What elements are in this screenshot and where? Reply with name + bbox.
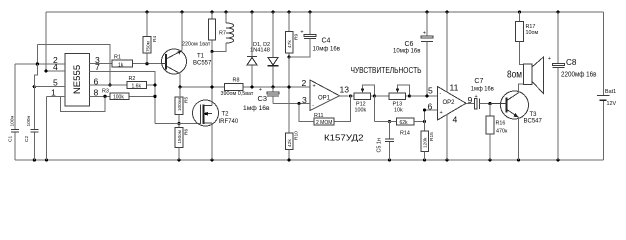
op-amp OP2 K157UD2 (428, 83, 473, 125)
wire NE555 pin4 line (46, 70, 65, 72)
node hat to pin6 junction (108, 83, 111, 86)
svg-text:BC557: BC557 (193, 61, 212, 67)
node OP2 plus line (423, 108, 426, 111)
svg-text:47k: 47k (287, 40, 293, 48)
main signal line T1 collector to OP1 + (180, 86, 310, 88)
capacitor C7 1мф 16в (471, 78, 495, 109)
svg-text:R11: R11 (314, 113, 324, 119)
svg-text:OP1: OP1 (318, 95, 331, 101)
node pin8 right (153, 95, 156, 98)
transistor T3 BC547 (490, 84, 543, 160)
capacitor C4 10мф 16в (289, 12, 341, 57)
svg-text:T1: T1 (197, 54, 205, 60)
node pin3 / R4 junction (145, 62, 148, 65)
node pin8 wrap (103, 95, 106, 98)
capacitor C1 (8, 64, 19, 160)
capacitor C3 1мф 16в (243, 87, 279, 112)
wire NE555 pin2 line (15, 63, 65, 65)
node R11 tap (297, 102, 300, 105)
node output feedback tap (349, 94, 352, 97)
svg-text:+: + (300, 30, 303, 36)
op-amp OP1 K157UD2 (302, 78, 350, 111)
svg-text:6: 6 (428, 101, 433, 111)
potentiometer P13 10k (375, 85, 410, 113)
wire right battery edge top (603, 12, 605, 96)
wire 220ом/coil node down to drain (211, 52, 213, 101)
svg-text:T2: T2 (222, 112, 230, 118)
wire NE555 pin3 line to T1 base (90, 63, 163, 65)
resistor R4 750м (143, 12, 158, 64)
svg-text:R7: R7 (219, 31, 226, 37)
capacitor C5 1н (377, 122, 394, 161)
svg-text:R4: R4 (152, 36, 158, 42)
svg-text:100k: 100k (355, 108, 367, 114)
svg-text:BC547: BC547 (524, 119, 543, 125)
node + input line junction (287, 85, 290, 88)
node C6 to minus line (425, 94, 428, 97)
node P12 wiper junction (373, 94, 376, 97)
svg-text:13: 13 (340, 85, 350, 95)
svg-text:10мф 16в: 10мф 16в (313, 45, 341, 52)
svg-text:+: + (440, 110, 443, 116)
node dots bottom rail (33, 85, 560, 162)
resistor R7 220ом 1ват (182, 12, 216, 52)
capacitor C2 (24, 64, 38, 160)
node collector line (178, 85, 181, 88)
wire bottom ground rail (15, 159, 604, 161)
potentiometer P12 100k (350, 85, 375, 113)
svg-text:5: 5 (53, 78, 58, 88)
svg-text:42k: 42k (287, 139, 293, 147)
svg-text:C5 1н: C5 1н (377, 138, 383, 152)
svg-text:1.6k: 1.6k (132, 84, 142, 90)
svg-text:4: 4 (453, 114, 458, 124)
svg-text:+: + (313, 83, 316, 89)
svg-text:R6: R6 (184, 129, 190, 135)
node pin6 right junction (153, 83, 156, 86)
node R9 C4 junction (287, 55, 290, 58)
wire hat over NE555 (pin2 to pin6 link) (37, 45, 110, 86)
svg-text:1мф 16в: 1мф 16в (243, 105, 270, 112)
svg-text:2: 2 (302, 78, 307, 88)
transistor T2 IRF740 (193, 100, 239, 160)
svg-text:C4: C4 (322, 38, 331, 45)
wire T1 collector to R5 (179, 87, 180, 97)
svg-text:10ом: 10ом (526, 30, 539, 36)
wire NE555 pin6 line (90, 84, 156, 86)
svg-text:C2: C2 (24, 136, 30, 142)
svg-text:+: + (423, 31, 426, 37)
svg-text:C3: C3 (258, 94, 267, 103)
svg-text:62k: 62k (400, 120, 409, 126)
resistor R5 100ом (175, 97, 189, 124)
resistor R9 47k (285, 12, 299, 57)
svg-text:12V: 12V (607, 101, 617, 107)
wire OP2 pin11 supply drop (446, 12, 448, 93)
svg-text:R1: R1 (114, 55, 121, 61)
wire gate line (155, 123, 201, 125)
wire NE555 pin1 line (47, 96, 66, 160)
svg-text:+: + (475, 94, 478, 100)
wire NE555 pin8 line (90, 95, 156, 97)
svg-text:Bat1: Bat1 (605, 89, 616, 95)
node D2 bottom (271, 85, 274, 88)
node R16 tap (488, 102, 491, 105)
resistor R14 62k (375, 118, 425, 136)
diode D1 1N4148 (247, 12, 257, 87)
wire OP2 output line (466, 102, 475, 104)
node R14 R15 junction (423, 120, 426, 123)
svg-text:1мф 16в: 1мф 16в (471, 85, 495, 92)
svg-text:8ом: 8ом (507, 70, 522, 81)
svg-text:+: + (548, 56, 551, 62)
battery Bat1 12V (597, 89, 616, 107)
node pin4 (44, 69, 47, 72)
transistor T1 BC557 (162, 12, 213, 87)
resistor R8 390ом 0,5ват (221, 78, 254, 97)
resistor R1 1k (112, 55, 133, 69)
svg-text:100ом: 100ом (177, 98, 182, 111)
speaker 8ом (507, 57, 544, 94)
svg-text:390ом 0,5ват: 390ом 0,5ват (221, 91, 254, 97)
svg-text:5: 5 (428, 86, 433, 96)
svg-text:NE555: NE555 (72, 65, 83, 94)
wire pin8 wrap under chip (61, 96, 106, 111)
svg-text:220ом 1ват: 220ом 1ват (182, 41, 211, 47)
svg-text:OP2: OP2 (443, 100, 456, 106)
svg-text:2 МОМ: 2 МОМ (316, 120, 332, 126)
node gate line R5 R6 (177, 122, 180, 125)
svg-text:R8: R8 (233, 78, 240, 84)
wire P13 to OP2 minus (410, 95, 438, 97)
capacitor C8 2200мф 16в (548, 12, 597, 160)
svg-text:2200мф 16в: 2200мф 16в (561, 71, 597, 78)
diode D2 1N4148 (268, 12, 279, 87)
wire R9 node down through + line to R10 (288, 57, 290, 133)
svg-text:R15: R15 (429, 132, 435, 141)
svg-text:К157УД2: К157УД2 (324, 133, 364, 143)
svg-text:11: 11 (450, 83, 459, 93)
svg-text:-: - (440, 91, 442, 97)
node drain line (210, 85, 213, 88)
svg-text:T3: T3 (530, 112, 538, 118)
svg-text:+: + (259, 87, 262, 93)
svg-text:150ом: 150ом (177, 130, 182, 143)
wire OP1 output line (340, 95, 349, 97)
inductor L search coil (212, 12, 234, 52)
svg-text:C7: C7 (474, 78, 483, 85)
wire junction up to OP2 plus (425, 110, 438, 122)
node D1 bottom (250, 85, 253, 88)
node dots top rail (145, 10, 559, 13)
svg-text:100н: 100н (26, 115, 32, 126)
svg-text:10мф 16в: 10мф 16в (393, 47, 421, 54)
svg-text:100н: 100н (10, 115, 16, 126)
svg-text:C1: C1 (8, 136, 14, 142)
wire NE555 pin5 line (34, 86, 65, 88)
svg-text:100k: 100k (113, 95, 124, 101)
resistor R17 10ом (516, 12, 539, 65)
resistor R10 42k (285, 131, 299, 160)
svg-text:750м: 750м (146, 41, 151, 52)
svg-text:R10: R10 (294, 131, 300, 140)
wire NE555 pin7 jog down (90, 72, 156, 124)
resistor R16 470к (486, 104, 508, 160)
svg-text:IRF740: IRF740 (219, 119, 239, 125)
resistor R15 120k (421, 122, 435, 161)
svg-text:1: 1 (51, 88, 56, 98)
wire top supply rail (46, 11, 604, 13)
svg-text:ЧУВСТВИТЕЛЬНОСТЬ: ЧУВСТВИТЕЛЬНОСТЬ (351, 66, 422, 75)
wire right battery edge bottom (603, 101, 605, 160)
resistor R2 1.6k (127, 76, 147, 90)
node R10 bottom (287, 158, 290, 161)
resistor R6 150ом (175, 124, 189, 161)
capacitor C6 10мф 16в (393, 12, 433, 96)
wire OP1 minus input line (273, 103, 310, 105)
svg-text:R5: R5 (184, 97, 190, 103)
svg-text:-: - (312, 102, 314, 108)
wire pot node down to R14 C5 (374, 96, 376, 122)
svg-text:R16: R16 (496, 121, 506, 127)
svg-text:470к: 470к (496, 128, 508, 134)
wire left vcc drop to pin4 (45, 12, 47, 71)
node C5 R14 (388, 120, 391, 123)
resistor R11 2 MOM feedback (299, 96, 351, 126)
svg-text:10k: 10k (394, 108, 403, 114)
svg-text:1N4148: 1N4148 (250, 48, 270, 54)
node P13 wiper junction (408, 94, 411, 97)
svg-text:120k: 120k (423, 137, 429, 148)
node pin2 / C2 branch (36, 62, 39, 65)
svg-text:R9: R9 (294, 34, 300, 40)
svg-text:R14: R14 (400, 130, 410, 136)
resistor R3 100k (102, 89, 129, 101)
svg-text:1k: 1k (118, 62, 124, 68)
svg-text:C8: C8 (566, 58, 577, 67)
wire OP2 pin4 ground drop (446, 115, 448, 161)
svg-text:R2: R2 (129, 76, 136, 82)
IC U1 NE555 timer body (65, 54, 90, 107)
node R7 coil junction (210, 50, 213, 53)
svg-text:R3: R3 (102, 89, 109, 95)
svg-text:4: 4 (53, 62, 58, 72)
